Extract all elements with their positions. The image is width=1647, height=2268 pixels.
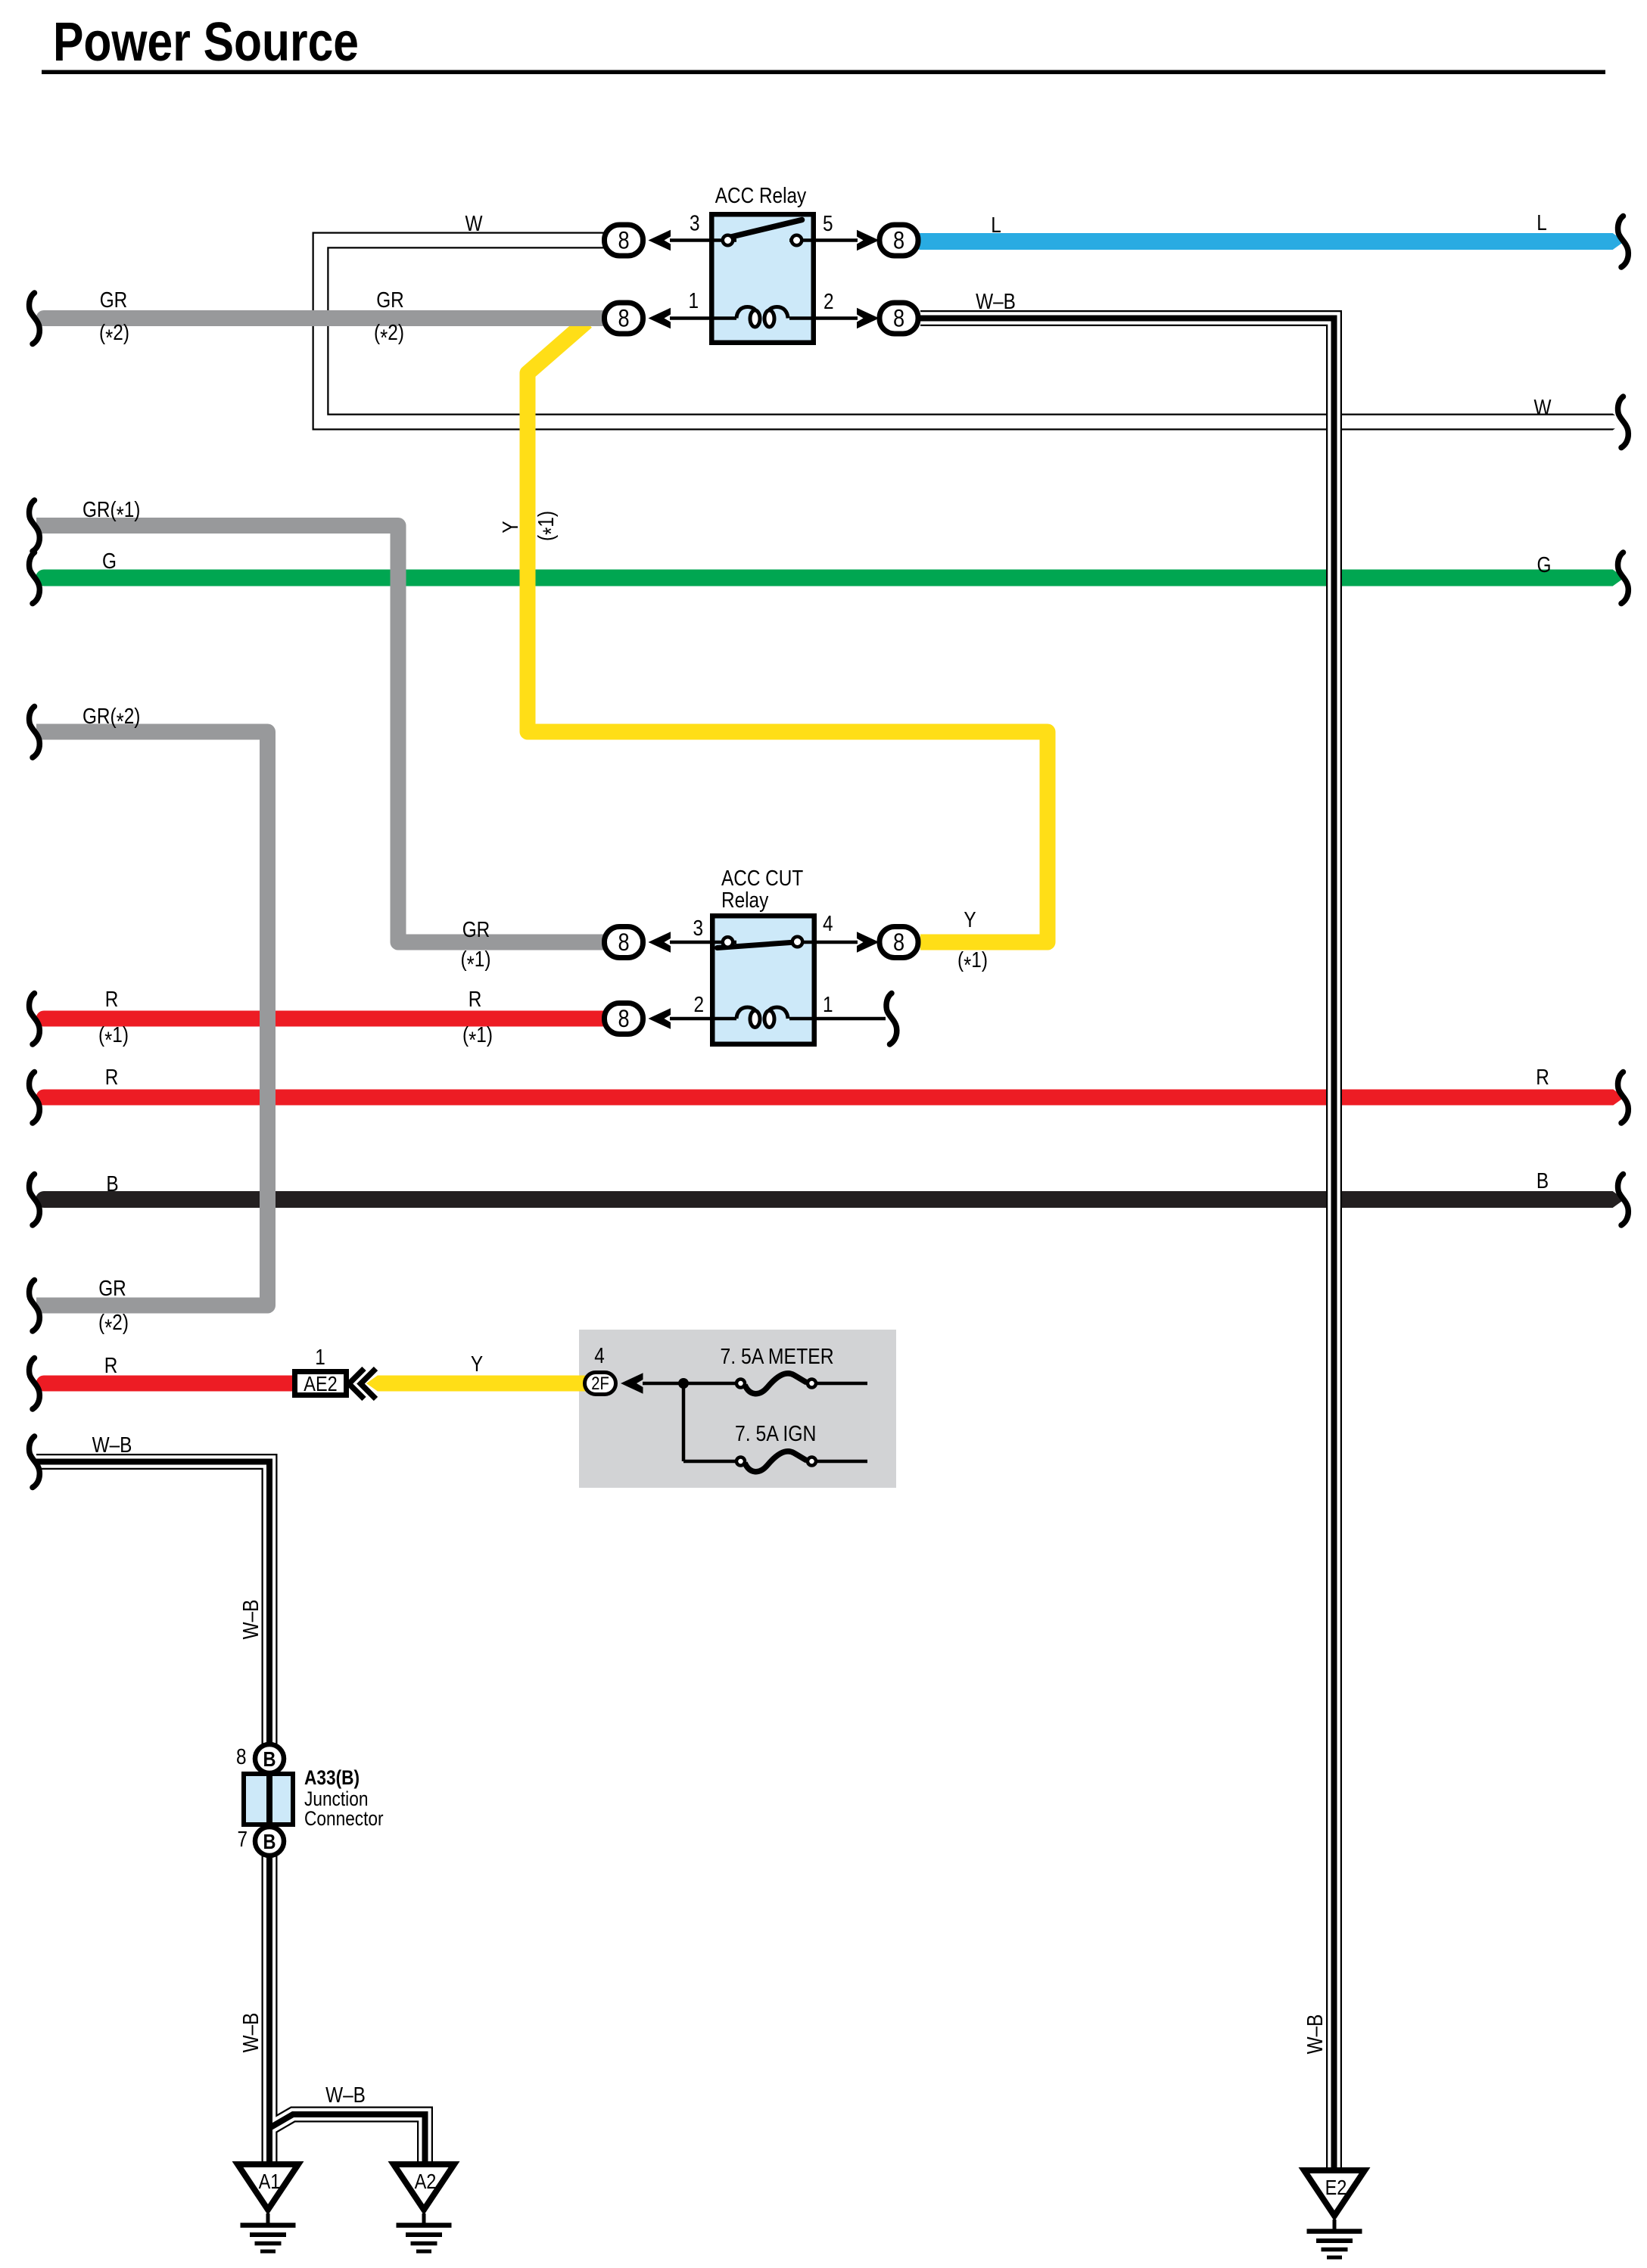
svg-text:AE2: AE2 xyxy=(304,1373,337,1395)
svg-text:R: R xyxy=(104,1353,118,1377)
svg-text:ACC Relay: ACC Relay xyxy=(715,183,807,207)
svg-text:L: L xyxy=(1536,210,1547,235)
svg-text:Power Source: Power Source xyxy=(53,12,359,73)
svg-text:W: W xyxy=(465,211,484,235)
svg-text:B: B xyxy=(263,1831,276,1853)
svg-text:8: 8 xyxy=(893,227,904,254)
svg-text:L: L xyxy=(991,213,1001,237)
svg-text:GR: GR xyxy=(98,1276,126,1300)
svg-text:8: 8 xyxy=(618,227,629,254)
svg-text:GR: GR xyxy=(100,288,128,312)
svg-text:2: 2 xyxy=(823,289,834,313)
svg-text:3: 3 xyxy=(693,916,703,940)
svg-text:R: R xyxy=(105,987,119,1011)
svg-text:B: B xyxy=(106,1171,118,1196)
svg-text:8: 8 xyxy=(236,1744,247,1769)
svg-text:Connector: Connector xyxy=(304,1807,384,1830)
svg-text:W: W xyxy=(1534,395,1552,419)
svg-text:W–B: W–B xyxy=(325,2083,366,2107)
svg-text:G: G xyxy=(1537,552,1552,577)
svg-text:1: 1 xyxy=(688,288,699,313)
svg-text:1: 1 xyxy=(823,992,833,1016)
svg-text:1: 1 xyxy=(315,1345,325,1369)
svg-text:2F: 2F xyxy=(591,1373,609,1393)
svg-text:8: 8 xyxy=(893,929,904,957)
svg-text:G: G xyxy=(102,549,117,573)
svg-text:W–B: W–B xyxy=(92,1433,132,1457)
svg-text:4: 4 xyxy=(823,911,833,935)
svg-text:8: 8 xyxy=(618,305,629,332)
svg-text:W–B: W–B xyxy=(976,289,1016,313)
svg-text:2: 2 xyxy=(693,992,704,1016)
svg-text:7. 5A METER: 7. 5A METER xyxy=(721,1344,834,1368)
svg-text:8: 8 xyxy=(893,305,904,332)
svg-text:A33(B): A33(B) xyxy=(304,1766,360,1789)
svg-text:8: 8 xyxy=(618,1006,629,1033)
svg-text:R: R xyxy=(105,1065,119,1089)
svg-text:3: 3 xyxy=(690,211,700,235)
svg-text:B: B xyxy=(263,1748,276,1771)
svg-text:GR: GR xyxy=(376,288,404,312)
svg-text:W–B: W–B xyxy=(238,1600,263,1640)
svg-text:W–B: W–B xyxy=(238,2013,263,2053)
svg-text:A2: A2 xyxy=(415,2170,437,2193)
svg-text:7. 5A IGN: 7. 5A IGN xyxy=(735,1421,816,1445)
svg-text:Relay: Relay xyxy=(721,888,769,912)
svg-text:W–B: W–B xyxy=(1303,2014,1327,2055)
svg-text:A1: A1 xyxy=(259,2170,281,2193)
svg-text:Y: Y xyxy=(498,521,522,533)
svg-text:Y: Y xyxy=(964,907,976,932)
svg-text:5: 5 xyxy=(823,211,833,235)
svg-text:R: R xyxy=(1536,1065,1549,1089)
svg-text:R: R xyxy=(469,987,482,1011)
svg-text:4: 4 xyxy=(594,1343,605,1367)
svg-text:8: 8 xyxy=(618,929,629,957)
svg-text:Y: Y xyxy=(471,1352,483,1376)
svg-text:7: 7 xyxy=(237,1827,248,1851)
svg-text:E2: E2 xyxy=(1325,2176,1347,2199)
svg-text:GR: GR xyxy=(462,917,490,941)
svg-text:B: B xyxy=(1536,1168,1549,1193)
svg-text:ACC CUT: ACC CUT xyxy=(721,866,803,890)
